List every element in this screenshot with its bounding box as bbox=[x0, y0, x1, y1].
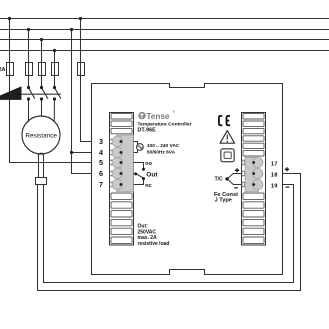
relay common Out bbox=[134, 174, 144, 179]
fuse F4 bbox=[52, 63, 59, 76]
right terminal strip body bbox=[242, 113, 266, 246]
label minus inside bbox=[234, 187, 237, 188]
wire pole 2 to resistance bbox=[41, 99, 43, 117]
left strip terminal row brackets bbox=[110, 139, 113, 187]
label plus inside bbox=[235, 168, 239, 172]
svg-text:6: 6 bbox=[99, 169, 103, 178]
T/C minus cable wire (inner loop) bbox=[44, 185, 294, 283]
contactor pole 1 contact arm bbox=[29, 88, 35, 99]
power rail N bbox=[0, 50, 329, 52]
wire from rail L1 through fuse F1 to terminal 5 bbox=[10, 19, 92, 163]
right strip gray terminal block bbox=[245, 157, 263, 191]
svg-text:19: 19 bbox=[271, 183, 278, 189]
wire contactor pole 2 drop bbox=[41, 40, 43, 88]
wire from rail L1 through fuse F5 to terminal 3 bbox=[81, 19, 92, 142]
power rail L2 bbox=[0, 29, 329, 31]
svg-text:T/C: T/C bbox=[215, 177, 223, 183]
svg-text:DT-96E: DT-96E bbox=[138, 128, 157, 134]
label minus outside bbox=[286, 187, 289, 188]
svg-text:Out: Out bbox=[146, 172, 158, 179]
junction dot rail2 x28 bbox=[27, 28, 30, 31]
contactor pole 2 contact arm bbox=[42, 88, 48, 99]
T/C plus cable wire (outer loop) bbox=[38, 174, 301, 291]
svg-text:®: ® bbox=[172, 110, 175, 114]
contactor top contact dots bbox=[27, 86, 30, 89]
warning triangle symbol bbox=[220, 131, 235, 144]
thermocouple probe connector bbox=[36, 178, 47, 185]
wire pole 3 to resistance bbox=[53, 99, 55, 122]
resistance heater circle bbox=[22, 116, 60, 154]
contactor linkage bar bbox=[22, 93, 61, 95]
terminal dots 3-7 bbox=[120, 140, 123, 143]
thermocouple probe shaft bbox=[39, 153, 44, 177]
svg-text:resistive load: resistive load bbox=[138, 241, 170, 247]
svg-text:no: no bbox=[145, 161, 152, 167]
junction dot rail1 x10 bbox=[8, 17, 11, 20]
terminal dots 17-19 bbox=[252, 161, 255, 164]
svg-text:50/60Hz 6VA: 50/60Hz 6VA bbox=[147, 150, 176, 156]
right strip small cells top bbox=[243, 114, 264, 119]
junction dot rail1 x80 bbox=[79, 17, 82, 20]
right strip terminal row brackets bbox=[242, 160, 245, 187]
wire from rail L2 to terminals 4 and 6 bbox=[72, 30, 92, 174]
fuse F3 bbox=[39, 63, 46, 76]
wire pole 1 to resistance bbox=[28, 99, 30, 122]
svg-text:nc: nc bbox=[145, 183, 151, 189]
AC supply bracket bbox=[134, 142, 138, 153]
svg-text:17: 17 bbox=[271, 161, 278, 167]
TENSE logo icon bbox=[138, 112, 145, 119]
fuse F2 bbox=[26, 63, 33, 76]
svg-text:Resistance: Resistance bbox=[25, 133, 57, 140]
svg-text:Tense: Tense bbox=[146, 112, 170, 121]
thermocouple symbol bbox=[227, 174, 241, 185]
svg-text:2A: 2A bbox=[0, 67, 6, 73]
relay nc contact bbox=[134, 180, 144, 185]
wire contactor pole 3 drop bbox=[54, 51, 56, 88]
label Out: 250VAC max. 2A resistive load bbox=[138, 224, 170, 247]
junction dot rail4 x54 bbox=[53, 49, 56, 52]
left strip gray terminal block bbox=[112, 135, 134, 192]
left strip small cells bottom bbox=[111, 193, 132, 199]
SSR drive triangle bbox=[0, 86, 22, 100]
svg-text:3: 3 bbox=[99, 137, 103, 146]
junction dot rail3 x41 bbox=[40, 38, 43, 41]
power rail L1 bbox=[0, 18, 329, 20]
left terminal strip body bbox=[110, 113, 134, 246]
power rail L3 bbox=[0, 39, 329, 41]
svg-text:J Type: J Type bbox=[215, 197, 232, 203]
svg-text:100 .. 240 VAC: 100 .. 240 VAC bbox=[147, 143, 180, 149]
relay no contact bbox=[134, 163, 144, 169]
label plus outside bbox=[285, 167, 289, 171]
svg-text:5: 5 bbox=[99, 158, 103, 167]
fuse F1 2A bbox=[7, 63, 14, 76]
CE mark bbox=[219, 116, 230, 125]
left strip small cells top bbox=[111, 114, 132, 119]
contactor bottom contact dots bbox=[27, 97, 30, 100]
svg-text:18: 18 bbox=[271, 172, 278, 178]
terminal number labels 3-7 bbox=[99, 137, 103, 189]
AC source symbol bbox=[137, 144, 144, 151]
right strip small cells bottom bbox=[243, 193, 264, 199]
svg-text:7: 7 bbox=[99, 180, 103, 189]
contactor pole 3 contact arm bbox=[55, 88, 61, 99]
terminal number labels 17-19 bbox=[271, 161, 278, 189]
junction dot rail2 x71 bbox=[70, 28, 73, 31]
fuse F5 bbox=[78, 63, 85, 76]
double insulation symbol bbox=[221, 149, 234, 162]
wire contactor pole 1 drop bbox=[28, 30, 30, 88]
svg-text:4: 4 bbox=[99, 148, 103, 157]
junction dot branch T4 bbox=[70, 151, 73, 154]
controller box outline bbox=[92, 84, 283, 275]
